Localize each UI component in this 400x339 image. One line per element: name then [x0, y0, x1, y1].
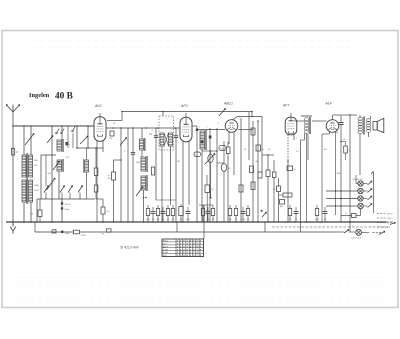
resistor 41ohm	[107, 229, 112, 232]
var cap arrow	[120, 138, 127, 146]
cap 50nF node b	[61, 207, 63, 209]
rail end dashes	[386, 221, 394, 223]
svg-text:Ingelen: Ingelen	[29, 92, 50, 99]
padder cap	[66, 142, 69, 145]
ABC1 legs	[228, 132, 230, 144]
svg-text:50nF: 50nF	[186, 219, 190, 221]
IF transformer shield	[159, 116, 174, 150]
resistor x241 lower	[239, 185, 243, 192]
svg-text:125: 125	[66, 157, 69, 159]
switch contacts row	[44, 186, 49, 193]
svg-text:20nF: 20nF	[65, 233, 70, 235]
svg-text:40 B: 40 B	[55, 92, 73, 102]
resistor 0,1 2W	[112, 172, 116, 180]
switch on heater line	[340, 231, 344, 233]
node row y155	[262, 154, 274, 156]
IF2 coils	[200, 131, 205, 149]
svg-text:5: 5	[17, 159, 18, 161]
svg-text:6,3 V 0,3 A: 6,3 V 0,3 A	[352, 237, 362, 240]
svg-text:Ik mA: Ik mA	[163, 251, 169, 254]
wire x306 long	[306, 133, 308, 222]
tuning gang section 1	[51, 126, 53, 222]
padder box	[152, 167, 155, 175]
osc coil small	[140, 139, 144, 150]
antenna	[12, 112, 14, 126]
speaker	[373, 122, 377, 131]
box horizontal	[283, 193, 292, 197]
long verticals right of ABC1	[248, 112, 250, 160]
svg-text:6308: 6308	[34, 185, 40, 187]
chassis arrow down	[210, 191, 212, 199]
wire y155 stub	[41, 154, 56, 156]
node row y151	[202, 150, 217, 152]
antenna coil T1	[23, 126, 25, 155]
svg-text:0,1: 0,1	[324, 219, 326, 221]
svg-text:5: 5	[218, 123, 219, 125]
svg-text:AL4: AL4	[325, 102, 332, 106]
svg-text:0,5: 0,5	[235, 219, 237, 221]
svg-text:3000: 3000	[136, 162, 140, 164]
resistor x253	[251, 128, 255, 135]
svg-text:12000: 12000	[220, 148, 225, 150]
svg-text:0,1: 0,1	[162, 219, 164, 221]
screen resistor box mid	[280, 200, 285, 205]
wires under IF1	[161, 146, 163, 222]
trimmer on agc line	[219, 109, 226, 117]
IF2 cap	[209, 136, 212, 139]
wire x95 to bus	[96, 198, 103, 200]
left bus y199	[37, 198, 95, 200]
svg-text:5nF: 5nF	[229, 219, 232, 221]
cap under rail	[110, 131, 114, 136]
resistor right of block	[101, 207, 105, 214]
resistor 40ohm	[38, 210, 42, 217]
cap C x133	[132, 128, 134, 152]
grid wire AL4	[312, 120, 327, 122]
svg-text:+255 V: +255 V	[387, 214, 394, 216]
svg-text:4,5: 4,5	[228, 168, 231, 170]
heater components left	[34, 222, 36, 232]
dashed aux line	[272, 226, 388, 228]
svg-text:Ua V: Ua V	[163, 243, 168, 245]
wires ABC1 area	[216, 128, 218, 222]
trimmer arrow 1b	[47, 136, 53, 144]
svg-text:50: 50	[207, 219, 209, 221]
cap C right	[340, 115, 342, 122]
resistor Rk a	[94, 168, 98, 176]
tube AF3	[180, 117, 192, 142]
cap blob top	[201, 141, 204, 144]
ground symbol	[12, 222, 14, 227]
svg-text:1,2: 1,2	[195, 155, 198, 157]
svg-text:AF7: AF7	[282, 104, 289, 108]
wire x88	[87, 126, 89, 148]
main ground rail	[6, 221, 386, 223]
detector line left	[238, 129, 253, 131]
oscillator coil can 2	[141, 176, 146, 190]
contact x262	[261, 210, 263, 212]
cathode pot 2	[221, 164, 227, 172]
oscillator coil can 1	[141, 157, 146, 171]
wire x68	[67, 126, 69, 148]
svg-text:0,1: 0,1	[180, 219, 182, 221]
grid rail y128	[106, 127, 180, 129]
agc line y111	[122, 111, 252, 113]
svg-text:Röhre: Röhre	[163, 240, 168, 243]
resistor Rk b	[94, 185, 98, 192]
resistor x345 right	[344, 146, 348, 153]
grid leak box	[194, 152, 201, 157]
component row above rail mid	[146, 209, 149, 216]
wire L4 down	[58, 171, 60, 199]
svg-text:St 4213 HW: St 4213 HW	[120, 246, 139, 250]
svg-text:50nF: 50nF	[315, 219, 319, 221]
selector common	[373, 172, 375, 213]
terminal circles	[358, 181, 363, 186]
resistor 0,1 b	[277, 186, 281, 192]
AF3 legs	[182, 142, 184, 223]
svg-text:1000: 1000	[337, 173, 341, 175]
lamp to arrow	[362, 231, 369, 233]
wire x258	[257, 121, 259, 222]
svg-text:1M: 1M	[256, 161, 259, 163]
coil L5 cathode	[85, 160, 89, 172]
grid cap jog	[107, 120, 122, 122]
svg-text:50: 50	[167, 219, 169, 221]
trimmer arrow 2	[80, 136, 88, 144]
output transformer	[358, 117, 363, 120]
top rail left	[13, 125, 94, 127]
svg-text:6313: 6313	[34, 190, 40, 192]
volume control box	[219, 146, 226, 151]
tube AK2	[94, 117, 106, 142]
table feed wire	[203, 205, 205, 239]
svg-text:0,5: 0,5	[244, 149, 247, 151]
wires long verticals mid	[127, 128, 129, 222]
svg-text:350: 350	[324, 149, 327, 151]
svg-text:AF3: AF3	[180, 104, 187, 108]
cap AL4 top	[333, 114, 342, 116]
svg-text:0,1: 0,1	[152, 219, 154, 221]
IF1 caps	[155, 128, 157, 136]
fuse to lamp	[341, 215, 352, 217]
cap 50nF node a	[61, 202, 63, 204]
svg-text:0,1: 0,1	[212, 219, 214, 221]
svg-text:50nF: 50nF	[241, 219, 245, 221]
coil L3	[61, 126, 63, 140]
detector top line	[237, 116, 262, 118]
svg-text:5nF: 5nF	[157, 219, 160, 221]
voltage tap labels	[377, 213, 386, 215]
wire x73	[72, 133, 74, 148]
wire coil bottoms	[23, 202, 25, 222]
node y163	[217, 162, 224, 164]
AF3 anode wire	[192, 125, 197, 127]
tube AF7	[285, 117, 297, 135]
IF1 coils	[160, 133, 164, 146]
svg-text:50: 50	[289, 219, 291, 221]
svg-text:Uk V: Uk V	[163, 255, 168, 257]
resistor R antenna	[12, 149, 15, 156]
voltage selector switches	[363, 183, 367, 185]
grid line ABC1	[197, 129, 225, 131]
svg-text:7: 7	[206, 127, 207, 129]
tube ABC1	[225, 120, 238, 133]
svg-text:ABC1: ABC1	[223, 102, 233, 106]
terminal feed wires	[326, 190, 358, 192]
svg-text:+250 V: +250 V	[387, 218, 394, 220]
volume pot	[208, 154, 213, 162]
driver transformer	[301, 115, 312, 117]
svg-text:2W: 2W	[107, 178, 110, 180]
AL4 legs	[329, 132, 331, 135]
resistor under ABC1	[227, 147, 231, 154]
trimmer C1 arrow	[25, 134, 34, 146]
svg-text:50 nF: 50 nF	[65, 204, 71, 206]
svg-text:D: D	[17, 151, 19, 154]
heater line y232	[35, 231, 74, 233]
svg-text:0,2: 0,2	[211, 189, 214, 191]
AK2 legs	[96, 141, 98, 153]
wire y205 segment	[156, 199, 176, 201]
AF7 legs	[287, 135, 289, 162]
coil L4	[57, 160, 62, 171]
svg-text:50nF: 50nF	[146, 219, 150, 221]
resistor x253 lower	[251, 182, 255, 190]
svg-text:AK2: AK2	[94, 104, 102, 108]
svg-text:2M: 2M	[177, 161, 180, 163]
dial lamp	[356, 230, 362, 236]
svg-text:0,1: 0,1	[295, 219, 297, 221]
svg-text:50: 50	[113, 123, 115, 125]
svg-text:0,3: 0,3	[268, 149, 271, 151]
svg-text:A05: A05	[280, 205, 283, 208]
cap 50nF label	[287, 166, 293, 171]
svg-text:1nF: 1nF	[172, 219, 175, 221]
svg-text:0,1: 0,1	[247, 219, 249, 221]
svg-text:24: 24	[343, 139, 345, 141]
svg-text:50nF: 50nF	[65, 209, 71, 211]
tube AL4	[326, 120, 339, 133]
wire x350	[349, 115, 351, 232]
wire x77 column	[76, 126, 78, 148]
ghost bleed-through text rows	[30, 40, 350, 42]
resistor on heater line	[74, 230, 80, 234]
svg-text:500: 500	[48, 173, 51, 175]
svg-text:Ia mA: Ia mA	[163, 248, 169, 251]
svg-text:Ug2 V: Ug2 V	[163, 246, 169, 248]
wire x46 upper	[45, 155, 47, 186]
node row y148	[77, 147, 103, 149]
node x341 y141	[340, 141, 342, 143]
cap 50nF box	[256, 145, 261, 151]
svg-text:3: 3	[124, 151, 125, 153]
wire x322 long	[321, 134, 323, 222]
svg-text:0,1: 0,1	[296, 151, 299, 153]
wire antenna column	[12, 126, 14, 222]
node y160	[114, 159, 122, 161]
valve data table	[162, 239, 204, 257]
heater drop wires	[176, 222, 178, 232]
components cluster	[250, 166, 254, 173]
band switch contacts top	[56, 132, 58, 134]
antenna coil T2	[22, 180, 26, 202]
osc trimmer arrow	[136, 187, 143, 197]
resistor x207 lower	[205, 185, 210, 193]
